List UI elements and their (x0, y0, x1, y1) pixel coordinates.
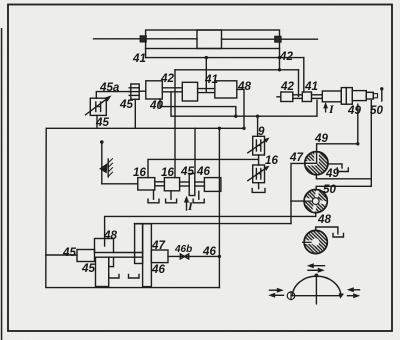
cylinder 41/42 rod left (94, 38, 146, 40)
arrow I right (325, 106, 327, 112)
arrows right pair (351, 289, 360, 291)
wire 9 drop (257, 116, 259, 136)
servo box e (366, 92, 373, 99)
shaft 42-41 (198, 88, 215, 90)
gearbox 40 (146, 81, 163, 99)
support cup c (198, 191, 200, 199)
node on L1 (205, 56, 208, 59)
wire 50 left (291, 200, 314, 202)
wire drop 195 (194, 128, 196, 173)
wire 45 box down (96, 115, 98, 128)
wire L2 right drop (298, 70, 300, 97)
wire bus 128 (46, 127, 244, 129)
wire HB (135, 223, 292, 225)
cylinder body (146, 30, 280, 49)
rod inside left (146, 38, 197, 40)
pivot circle (287, 292, 295, 300)
wire detent bus (102, 183, 138, 185)
wire L2 left drop long (174, 70, 176, 178)
clutch 50 (302, 188, 329, 215)
shaft (195, 181, 205, 183)
anchor 47 right (328, 164, 342, 168)
shaft double (114, 252, 143, 254)
arrows left pair (270, 289, 281, 291)
gear 48 lower (96, 257, 109, 286)
gear 48 upper (95, 239, 114, 253)
cup under 16 (258, 183, 260, 189)
bottom shaft (46, 254, 77, 256)
rod inside right (222, 38, 280, 40)
servo plate (341, 88, 352, 105)
wire bus 159 (148, 159, 258, 177)
gear 16 b (164, 178, 179, 191)
cup d (109, 275, 119, 279)
50 pointer (381, 89, 383, 101)
piston (197, 30, 222, 49)
wire H1 (160, 99, 236, 116)
right chain stub (277, 96, 281, 98)
wire bus L2 (175, 69, 299, 71)
wire drop 219 long (218, 128, 220, 287)
support cup a (153, 190, 155, 199)
gearbox 41 right (302, 92, 311, 102)
wire bus L1 (146, 57, 304, 59)
wire H2 (171, 92, 317, 116)
wire HA (105, 216, 316, 246)
plate B 47 (143, 224, 152, 287)
wire R1 (316, 175, 371, 179)
wire R2 (316, 186, 371, 189)
wire drop to shaft2 (205, 58, 207, 92)
detent arrow (99, 163, 107, 174)
servo tab (373, 94, 377, 98)
arrow I up (186, 200, 188, 211)
disc 45 (189, 174, 195, 196)
detent wall (107, 159, 109, 177)
wire Vb (370, 101, 372, 187)
left loop wire (46, 128, 220, 287)
stub 48 (237, 89, 244, 128)
link 45a elbow (96, 92, 131, 99)
wire cylinder left wall down (145, 49, 147, 58)
box 46 right (151, 250, 168, 263)
node L1-wall (278, 56, 281, 59)
plate A 47 (135, 224, 143, 264)
support cup b (170, 191, 172, 199)
dome arc (292, 276, 341, 296)
servo box d (352, 91, 366, 101)
gear 16 a (138, 178, 155, 190)
box 45 left (77, 250, 95, 262)
variator 9 (253, 136, 265, 155)
clutch 47 (304, 151, 328, 175)
shaft 40-42 (162, 87, 182, 89)
gear 46 (204, 178, 221, 192)
wire L1 drop right (303, 58, 305, 92)
detent line (101, 142, 103, 184)
anchor 48 (316, 227, 338, 234)
shaft (180, 181, 190, 183)
gearbox 42 (182, 82, 197, 101)
shaft (155, 181, 165, 183)
arrows top pair (310, 265, 325, 267)
variable coupling 45 box (90, 98, 106, 115)
cup e (129, 275, 140, 279)
wire striped down (134, 99, 136, 128)
arc end arrow (339, 293, 345, 299)
gearbox 41 (215, 81, 237, 98)
clutch 48 (303, 230, 328, 253)
wire Va (357, 104, 359, 144)
gearbox 42 right (281, 92, 293, 102)
cylinder right collar (275, 36, 281, 42)
wire 47 left trunk (291, 163, 305, 223)
wire 46b (168, 255, 219, 257)
striped element 45 (131, 84, 139, 99)
cylinder left collar (140, 36, 146, 42)
variator 16 (253, 165, 265, 183)
dome vertical (315, 275, 317, 304)
rod right (280, 38, 318, 40)
link 9-16 (258, 155, 260, 165)
arrow through 45 (86, 98, 109, 115)
dome baseline (292, 295, 341, 297)
wire 49 top (317, 144, 358, 163)
servo body (322, 91, 341, 102)
node L2-wall (278, 68, 281, 71)
wire 50 bottom (315, 213, 317, 217)
shaft stub (139, 90, 146, 92)
valve X 46b (180, 254, 188, 259)
wire cylinder right wall down (279, 49, 281, 70)
